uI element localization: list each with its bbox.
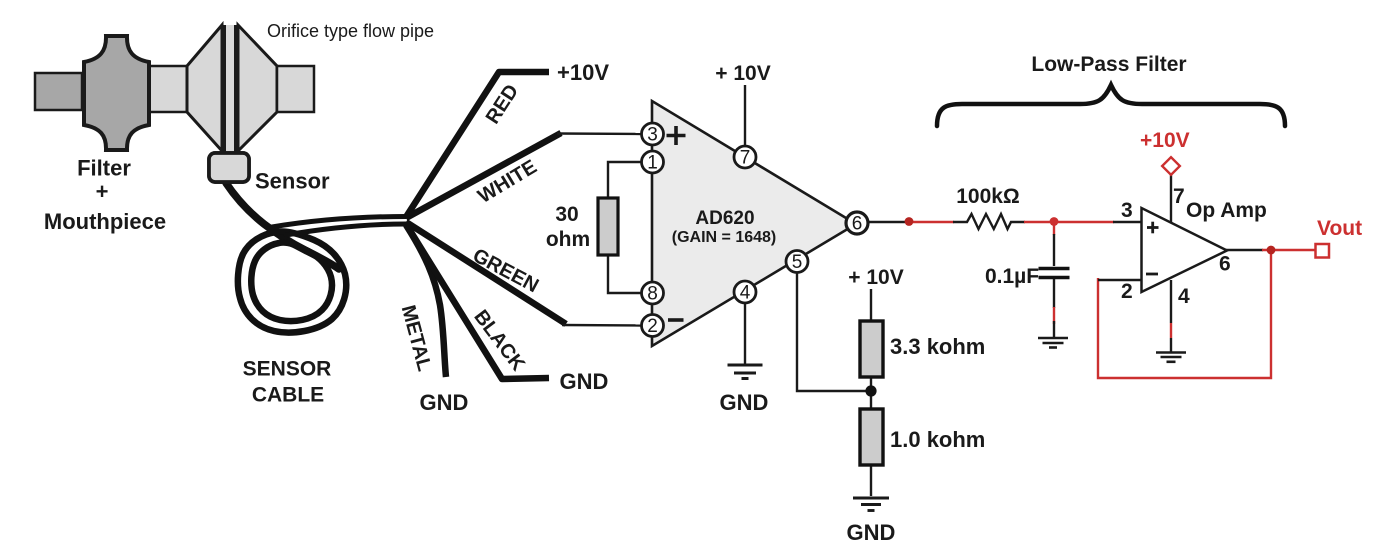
svg-text:GND: GND [420, 390, 469, 415]
svg-text:AD620: AD620 [695, 208, 754, 229]
svg-text:7: 7 [1173, 185, 1185, 208]
svg-text:SENSOR: SENSOR [243, 358, 332, 381]
svg-text:ohm: ohm [546, 228, 590, 251]
svg-text:5: 5 [792, 252, 803, 273]
svg-text:+ 10V: + 10V [715, 62, 770, 85]
svg-text:4: 4 [1178, 285, 1190, 308]
svg-text:8: 8 [647, 284, 658, 305]
svg-text:30: 30 [555, 203, 578, 226]
svg-text:Sensor: Sensor [255, 169, 330, 194]
svg-text:Op Amp: Op Amp [1186, 199, 1267, 222]
svg-text:0.1µF: 0.1µF [985, 265, 1039, 288]
svg-text:(GAIN = 1648): (GAIN = 1648) [672, 229, 776, 246]
svg-text:100kΩ: 100kΩ [956, 185, 1020, 208]
svg-text:3: 3 [1121, 199, 1133, 222]
svg-text:7: 7 [740, 148, 751, 169]
svg-text:1.0 kohm: 1.0 kohm [890, 427, 985, 452]
svg-text:+: + [96, 179, 109, 204]
svg-text:Filter: Filter [77, 156, 131, 181]
svg-text:+ 10V: + 10V [848, 266, 903, 289]
svg-text:GND: GND [560, 369, 609, 394]
svg-text:6: 6 [852, 214, 863, 235]
svg-text:2: 2 [647, 316, 658, 337]
svg-text:3.3 kohm: 3.3 kohm [890, 334, 985, 359]
svg-text:GND: GND [847, 520, 896, 545]
svg-text:Orifice type flow pipe: Orifice type flow pipe [267, 21, 434, 41]
svg-text:Vout: Vout [1317, 217, 1362, 240]
svg-text:6: 6 [1219, 253, 1231, 276]
svg-text:Mouthpiece: Mouthpiece [44, 209, 166, 234]
svg-text:4: 4 [740, 283, 751, 304]
svg-text:GND: GND [720, 390, 769, 415]
svg-text:3: 3 [647, 125, 658, 146]
svg-text:CABLE: CABLE [252, 384, 324, 407]
svg-text:1: 1 [647, 153, 658, 174]
svg-text:2: 2 [1121, 280, 1133, 303]
svg-text:+10V: +10V [1140, 129, 1190, 152]
svg-text:Low-Pass Filter: Low-Pass Filter [1031, 53, 1186, 76]
svg-text:+10V: +10V [557, 60, 609, 85]
